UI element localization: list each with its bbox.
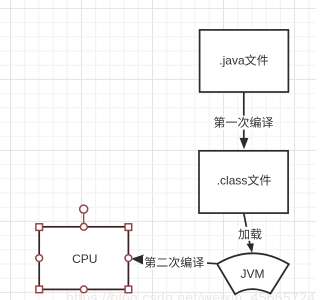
- label 加载: [238, 228, 261, 239]
- handle top-mid: [80, 223, 87, 230]
- label 第二次编译: [145, 257, 204, 268]
- svg-text:JVM: JVM: [240, 267, 264, 281]
- rotation handle stem: [83, 213, 85, 223]
- label 第一次编译: [214, 117, 273, 128]
- handle top-right: [125, 224, 132, 231]
- arrowhead into .class: [240, 138, 249, 149]
- handle bottom-right: [125, 286, 132, 293]
- grid: [10, 0, 12, 300]
- handle bottom-left: [36, 286, 43, 293]
- handle bottom-mid: [80, 286, 87, 293]
- arrowhead into CPU: [131, 255, 144, 265]
- rotation handle circle: [80, 205, 88, 213]
- svg-text:.java: .java: [219, 54, 245, 68]
- box CPU (selected): [39, 227, 128, 290]
- svg-text:CPU: CPU: [72, 252, 97, 266]
- handle left-mid: [36, 255, 43, 262]
- wire arrow .java to .class: [243, 92, 245, 139]
- svg-text:.class: .class: [217, 174, 248, 188]
- shape JVM fan: [217, 253, 289, 294]
- box .java文件: [200, 30, 289, 92]
- label bg 第一次编译: [212, 116, 276, 130]
- box .class文件: [199, 151, 288, 213]
- svg-text:https://blog.csdn.net/weixin_4: https://blog.csdn.net/weixin_45665724: [66, 290, 315, 300]
- handle right-mid: [125, 255, 132, 262]
- label bg 加载: [235, 227, 265, 241]
- handle top-left: [36, 224, 43, 231]
- wire arrow .class to JVM: [244, 213, 250, 243]
- arrowhead into JVM: [247, 243, 254, 252]
- wire arrow JVM to CPU: [134, 259, 217, 264]
- label bg 第二次编译: [143, 256, 207, 270]
